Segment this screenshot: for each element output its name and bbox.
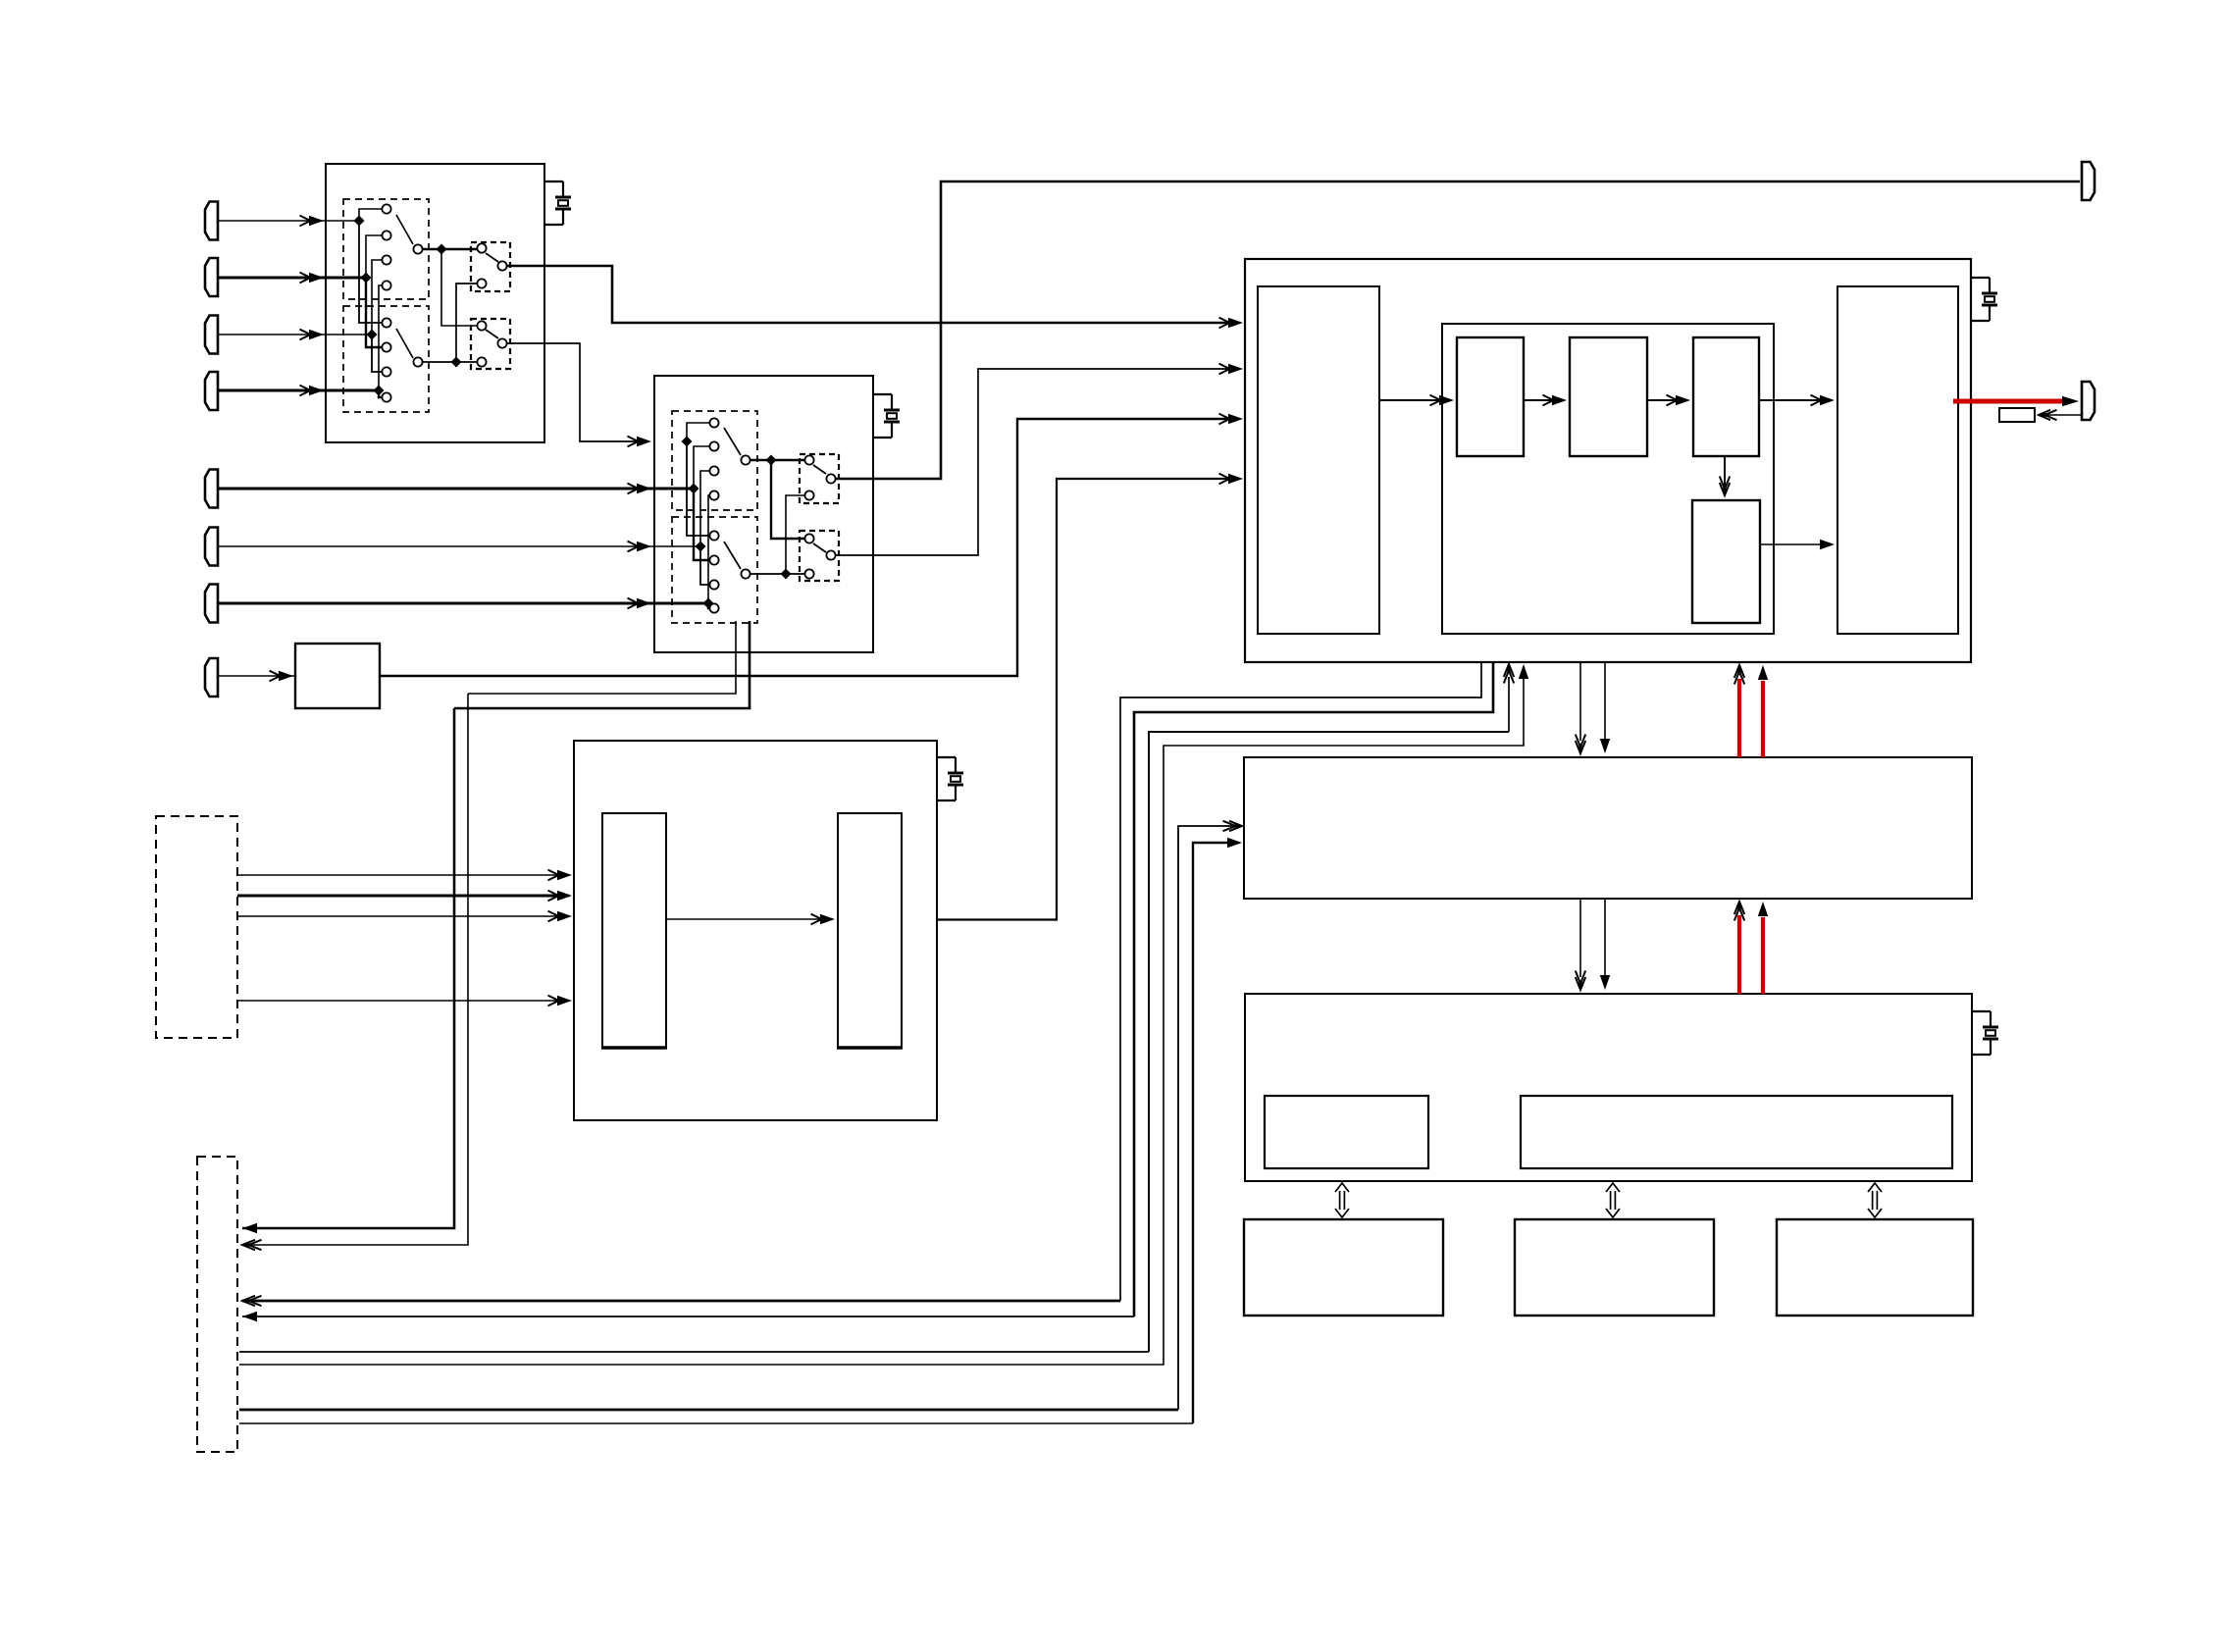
wire U4 to U5 signal 1: [1579, 662, 1581, 741]
U1 wire input1 to upper contact: [359, 209, 382, 221]
U2 lower contact 4: [709, 603, 718, 612]
U2 node input3 junction: [696, 542, 706, 552]
U2 upper switch lever: [724, 428, 741, 455]
red bus U6 to U5 line 2: [1761, 917, 1765, 994]
U2 node input4 junction: [703, 598, 714, 609]
U1 selA lever: [486, 253, 498, 262]
U4 output interface block: [1837, 286, 1958, 634]
U1 node input4 junction: [374, 386, 385, 396]
U1 wire input4 to lower contact: [379, 390, 382, 397]
U3 stage 1 box: [602, 813, 666, 1048]
memory box M3: [1777, 1219, 1973, 1316]
U1 upper contact 2: [382, 231, 390, 239]
bus wire T2 to U4 line 4: [239, 679, 1524, 1365]
red bus U6 to U5 line 1: [1737, 915, 1741, 994]
wire U2 output B to IC U4 input 2: [836, 369, 1238, 555]
U6 sub block left: [1265, 1096, 1428, 1168]
U2 upper common contact: [741, 455, 750, 464]
U1 upper contact 3: [382, 255, 390, 264]
U2 selB output contact: [826, 550, 835, 559]
U1 selB lever: [486, 330, 498, 338]
connector J8: [205, 658, 218, 697]
U1 upper contact 4: [382, 281, 390, 289]
U2 node input1 junction: [682, 437, 693, 447]
wire T1 video 2 to U3: [237, 895, 569, 898]
wire A1 to IC U4 input 3: [380, 419, 1238, 676]
U2 node upper common junction: [766, 455, 777, 466]
U2 wire lower common to node: [750, 573, 804, 575]
U1 node input1 junction: [354, 216, 365, 227]
U1 lower contact 4: [382, 392, 390, 401]
U2 wire input1 to upper contact: [687, 423, 709, 441]
U2 wire input2 to lower contact: [694, 489, 709, 560]
crystal X2: [873, 393, 892, 395]
U4 block B: [1570, 337, 1647, 456]
U2 lower common contact: [741, 569, 750, 578]
U1 wire lower common to node: [423, 361, 477, 363]
wire J3 to selector U1 input 3: [218, 334, 372, 336]
U1 wire input3 to lower contact: [372, 335, 382, 372]
connector block T2 dashed box: [197, 1157, 237, 1452]
U1 wire crossover upper-to-lower: [441, 249, 477, 326]
AV switch U1 box: [326, 164, 544, 442]
U1 lower common contact: [413, 357, 422, 366]
U4 block C: [1693, 337, 1759, 456]
U1 selA output contact: [497, 261, 506, 270]
wire U2 output A to connector CN1: [836, 181, 2080, 479]
U2 wire crossover upper-to-lower: [771, 460, 804, 539]
U2 wire input1 to lower contact: [687, 441, 709, 536]
crystal X4: [1971, 277, 1990, 279]
connector CN2: [2082, 382, 2095, 420]
connector CN1: [2082, 162, 2095, 200]
crystal X1: [544, 181, 563, 182]
red bus U5 to U4 line 2: [1761, 681, 1765, 757]
U1 wire input2 to lower contact: [366, 278, 382, 347]
U2 output selector A dashed box: [800, 454, 839, 503]
red bus U5 to U4 line 1: [1737, 679, 1741, 757]
U2 wire input3 to lower contact: [700, 546, 709, 585]
U1 node input2 junction: [361, 273, 372, 284]
wire J1 to selector U1 input 1: [218, 220, 359, 222]
U2 lower contact 2: [709, 555, 718, 564]
U1 upper switch lever: [396, 215, 413, 244]
U2 selA contact bottom: [804, 490, 813, 499]
U1 wire input1 to lower contact: [359, 221, 382, 323]
wire U1 output A to IC U4 input 1: [507, 266, 1238, 323]
U4 input interface block: [1258, 286, 1379, 634]
U1 upper common contact: [413, 244, 422, 253]
bus arrow U6-M2: [1610, 1191, 1612, 1210]
U2 wire input4 to upper contact: [708, 495, 709, 603]
wire U5 to U6 signal 2: [1604, 899, 1606, 975]
U2 upper contact 2: [709, 441, 718, 450]
crystal X3: [937, 756, 956, 758]
U1 lower contact 3: [382, 367, 390, 376]
U1 selB contact bottom: [477, 357, 486, 366]
feedback buffer box A2: [1999, 408, 2035, 422]
AV switch U2 box: [654, 376, 873, 652]
wire CN2 to buffer A2: [2039, 414, 2082, 416]
U1 selA contact top: [477, 243, 486, 252]
U2 wire crossover lower-to-upper: [786, 495, 804, 574]
U2 wire input2 to upper contact: [694, 446, 709, 489]
connector J6: [205, 528, 218, 566]
wire U4 D to output block: [1760, 543, 1830, 545]
wire U4 A to B: [1524, 399, 1562, 401]
wire J6 to selector U2 input 3: [218, 545, 700, 547]
connector J3: [205, 316, 218, 354]
U2 lower selector dashed box: [672, 517, 757, 623]
U1 upper contact feed: [477, 243, 486, 252]
wire U4 C to output block: [1759, 399, 1830, 401]
memory box M1: [1244, 1219, 1443, 1316]
U4 block D: [1692, 500, 1760, 623]
U1 upper contact 1: [382, 204, 390, 213]
U2 upper contact 1: [709, 418, 718, 427]
U2 lower switch lever: [724, 542, 741, 569]
wire U2 tap 1 down: [454, 621, 750, 708]
bus arrow U6-M3: [1872, 1191, 1874, 1210]
U1 selA contact bottom: [477, 279, 486, 287]
bus wire T2 to U5 line 6: [239, 1422, 1193, 1424]
U2 selB lever: [813, 543, 826, 552]
U2 selA lever: [813, 465, 826, 474]
sync separator box A1: [295, 644, 380, 708]
main signal processor U4 box: [1245, 259, 1971, 662]
U1 selB output contact: [497, 338, 506, 347]
connector J5: [205, 470, 218, 508]
U2 selB contact top: [804, 534, 813, 542]
U2 upper contact 3: [709, 466, 718, 475]
U4 processing core box: [1442, 324, 1774, 634]
U3 stage 2 box: [838, 813, 902, 1048]
memory controller U5 box: [1244, 757, 1972, 899]
U1 node input3 junction: [367, 330, 378, 340]
U4 block A: [1457, 337, 1524, 456]
wire U3 stage1 to stage2: [666, 918, 827, 920]
wire U2 tap 2 down: [468, 621, 736, 694]
U2 lower contact 1: [709, 531, 718, 540]
wire T1 audio to U3: [237, 1000, 569, 1002]
U6 sub block right: [1521, 1096, 1952, 1168]
wire U4 to U5 signal 2: [1604, 662, 1606, 739]
U3 stage 2 bottom emphasis: [837, 1046, 903, 1050]
bus wire U4 to T2 line 1: [1120, 662, 1481, 1301]
wire J7 to selector U2 input 4: [218, 602, 708, 605]
bus wire T2 to U4 line 3: [239, 1351, 1149, 1353]
U1 wire crossover lower-to-upper: [456, 284, 477, 362]
U1 wire input2 to upper contact: [366, 235, 382, 278]
connector J2: [205, 258, 218, 296]
connector J7: [205, 585, 218, 623]
U2 node input2 junction: [689, 484, 699, 494]
connector J1: [205, 202, 218, 240]
wire U5 to U6 signal 1: [1579, 899, 1581, 977]
U2 selA contact top: [804, 455, 813, 464]
wire tap1 to connector T2: [242, 708, 454, 1228]
U2 wire input4 to lower contact: [708, 603, 709, 608]
U1 wire input3 to upper contact: [372, 260, 382, 335]
wire tap2 to connector T2: [242, 694, 468, 1245]
wire T1 video 3 to U3: [237, 915, 569, 917]
U2 upper contact 4: [709, 490, 718, 499]
U1 lower switch lever: [396, 329, 413, 358]
U2 wire input3 to upper contact: [700, 471, 709, 546]
U1 output selector A dashed box: [471, 242, 510, 291]
wire U4 interface to core: [1379, 399, 1449, 401]
U1 node lower common junction: [451, 357, 462, 368]
U1 wire input4 to upper contact: [379, 285, 382, 390]
U2 node lower common junction: [781, 569, 792, 580]
U2 selA output contact: [826, 474, 835, 483]
system controller U6 box: [1245, 994, 1972, 1181]
U1 lower contact 1: [382, 318, 390, 327]
U1 output selector B dashed box: [471, 319, 510, 369]
wire J5 to selector U2 input 2: [218, 488, 694, 490]
wire J4 to selector U1 input 4: [218, 389, 379, 392]
connector J4: [205, 372, 218, 410]
wire U4 C to D: [1724, 456, 1726, 490]
U1 selB contact top: [477, 321, 486, 330]
wire U4 red output to CN2: [1953, 399, 2070, 404]
wire J8 to sync box A1: [218, 675, 295, 677]
U1 lower selector dashed box: [343, 306, 429, 412]
bus wire U4 to T2 line 2: [1134, 662, 1493, 1316]
U2 output selector B dashed box: [800, 531, 839, 581]
wire U3 output to IC U4 input 4: [937, 479, 1238, 920]
U1 wire upper common to node: [423, 248, 477, 251]
wire U1 output B to U2 input 1: [507, 343, 646, 441]
U1 lower contact 2: [382, 342, 390, 351]
crystal X5: [1972, 1010, 1991, 1012]
memory box M2: [1515, 1219, 1714, 1316]
U1 node upper common junction: [437, 244, 447, 255]
U2 wire upper common to node: [750, 459, 804, 462]
bus wire T2 to U5 line 5: [239, 1409, 1178, 1412]
video processor U3 box: [574, 741, 937, 1120]
U3 stage 1 bottom emphasis: [601, 1046, 667, 1050]
tuner unit T1 dashed box: [156, 816, 237, 1038]
U2 lower contact 3: [709, 580, 718, 589]
U1 upper selector dashed box: [343, 199, 429, 299]
bus arrow U6-M1: [1339, 1191, 1341, 1210]
wire U4 B to C: [1647, 399, 1685, 401]
U2 upper selector dashed box: [672, 411, 757, 510]
wire T1 video 1 to U3: [237, 874, 569, 876]
U2 selB contact bottom: [804, 569, 813, 578]
wire J2 to selector U1 input 2: [218, 277, 366, 280]
